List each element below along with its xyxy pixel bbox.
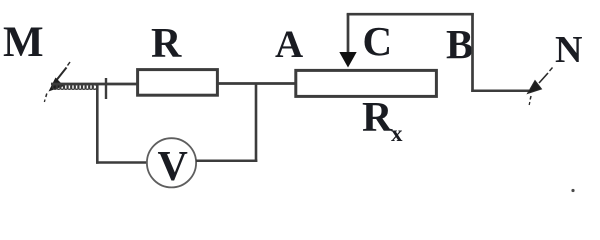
- wire right vertical at B: [471, 13, 474, 92]
- coiled rheostat wire at M end: [53, 85, 97, 90]
- wire to N: [471, 90, 529, 93]
- probe arrow at N: [528, 68, 553, 106]
- svg-text:C: C: [363, 18, 393, 64]
- wire top horizontal: [347, 13, 474, 16]
- wire voltmeter left drop: [96, 84, 99, 164]
- svg-text:V: V: [158, 144, 188, 190]
- junction tick: [105, 78, 107, 99]
- wire M to resistor R: [51, 83, 138, 86]
- svg-text:N: N: [555, 29, 582, 71]
- wire voltmeter to riser: [196, 160, 257, 163]
- stray dot: [571, 189, 574, 192]
- wiper stem at C: [347, 14, 350, 55]
- wiper arrowhead: [339, 52, 356, 68]
- svg-text:x: x: [391, 121, 403, 146]
- voltmeter V1: [147, 138, 196, 190]
- rheostat Rx body: [296, 70, 437, 96]
- rheostat Rx value label: [362, 95, 403, 146]
- svg-text:M: M: [3, 19, 44, 66]
- wire bottom left to voltmeter: [96, 161, 148, 164]
- svg-text:R: R: [362, 95, 393, 141]
- wire R to Rx: [216, 82, 297, 85]
- resistor R body: [138, 70, 218, 96]
- probe arrow at M: [44, 62, 70, 102]
- svg-text:B: B: [446, 21, 473, 67]
- svg-text:R: R: [151, 21, 182, 67]
- wire riser to node between R and Rx: [255, 83, 258, 162]
- svg-text:A: A: [275, 23, 303, 66]
